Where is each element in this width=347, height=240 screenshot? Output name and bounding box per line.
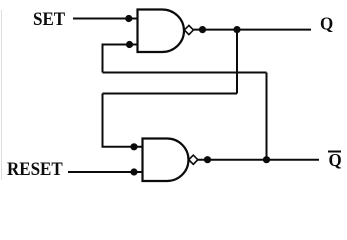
wire Q feedback vertical — [236, 30, 238, 94]
junction dot top gate input 2 — [126, 41, 133, 48]
junction dot bottom gate input 2 — [130, 168, 137, 175]
wire Q output — [193, 29, 311, 31]
wire RESET input — [68, 171, 143, 173]
nand gate U1 body — [138, 10, 185, 53]
wire Qbar feedback vertical — [266, 73, 268, 160]
svg-text:Q: Q — [329, 150, 342, 171]
junction dot Qbar branch node — [263, 156, 270, 163]
nand gate U2 body — [143, 139, 189, 182]
wire SET input — [73, 18, 138, 20]
junction dot bottom gate input 1 — [130, 143, 137, 150]
wire Qbar feedback horizontal — [103, 72, 267, 74]
svg-text:RESET: RESET — [7, 158, 63, 179]
junction dot after U1 bubble — [199, 26, 206, 33]
junction dot after U2 bubble — [204, 156, 211, 163]
nand gate U1 inversion bubble — [184, 25, 193, 34]
scan edge artifact — [1, 10, 3, 180]
overbar of Qbar — [328, 151, 341, 153]
wire Q feedback down-left to U2 input 1 — [103, 94, 143, 147]
wire feedback to top gate input 2 — [103, 45, 138, 73]
junction dot top gate input 1 — [125, 15, 132, 22]
junction dot Q branch node — [233, 26, 240, 33]
wire Qbar output — [198, 159, 319, 161]
wire Q feedback horizontal — [103, 93, 238, 95]
nand gate U2 inversion bubble — [189, 155, 198, 164]
svg-text:Q: Q — [320, 13, 333, 34]
svg-text:SET: SET — [33, 8, 65, 29]
